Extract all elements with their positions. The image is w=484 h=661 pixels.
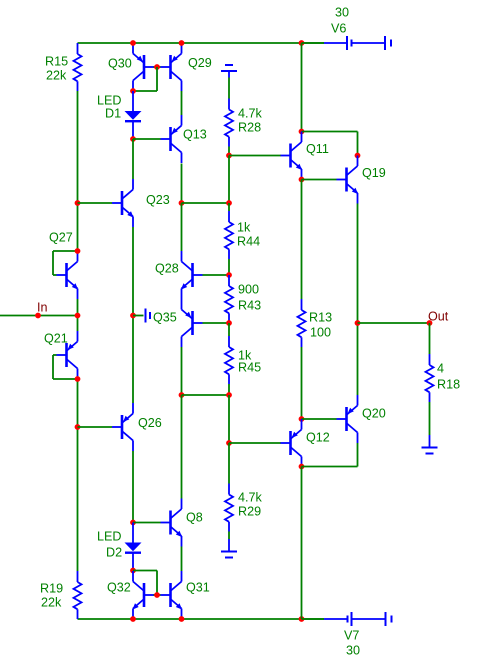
node Q32-Q31 base node	[154, 592, 160, 598]
svg-text:V6: V6	[331, 21, 346, 35]
wire R18 top wire	[429, 323, 431, 354]
svg-text:Q11: Q11	[306, 142, 329, 156]
svg-text:Q13: Q13	[183, 127, 207, 141]
resistor R43	[225, 275, 233, 323]
node Q30-Q29 base node	[154, 64, 160, 70]
wire mirror L horiz	[133, 90, 157, 92]
transistor Q11	[281, 132, 303, 180]
wire Q8E-Q31 wire	[181, 547, 183, 572]
resistor R19	[74, 571, 82, 619]
svg-text:22k: 22k	[46, 68, 67, 82]
node Q21 collector node	[75, 376, 81, 382]
node Q19C node	[355, 153, 361, 159]
wire branch y131	[302, 131, 358, 133]
wire R13-Q12C	[301, 347, 303, 419]
ground output gnd	[429, 435, 431, 448]
wire mid wire y203	[182, 202, 230, 204]
node D2 cathode node	[130, 568, 136, 574]
wire Q27 loop top	[53, 250, 78, 252]
node Q26 base node	[75, 424, 81, 430]
transistor Q21	[57, 331, 78, 379]
wire Q13 base wire	[133, 138, 161, 140]
transistor Q27	[57, 251, 79, 299]
wire R44 bottom stub	[228, 259, 230, 275]
wire Q21 loop to base	[53, 354, 57, 356]
resistor R18	[426, 354, 434, 402]
svg-text:D1: D1	[105, 106, 121, 120]
wire left rail mid	[77, 299, 79, 331]
wire Q8 base wire	[133, 522, 161, 524]
wire mirror2 L vert	[156, 571, 158, 596]
battery V7	[324, 618, 347, 620]
node input terminal	[35, 313, 41, 319]
svg-text:Q23: Q23	[146, 193, 170, 207]
wire wire y395	[182, 394, 230, 396]
wire Q26 base wire	[78, 426, 113, 428]
node D1 cathode node	[130, 136, 136, 142]
node bottom rail node B	[179, 616, 185, 622]
wire left rail upper	[77, 91, 79, 251]
svg-text:30: 30	[335, 5, 349, 19]
node Q12E node	[299, 464, 305, 470]
wire Q13C wire	[181, 164, 183, 204]
svg-text:R45: R45	[238, 360, 261, 374]
wire Q26 collector wire	[132, 451, 134, 523]
wire Q27 loop left	[52, 251, 54, 275]
wire Q12 base wire	[229, 442, 281, 444]
battery I-sense	[145, 309, 147, 323]
wire right rail top	[301, 43, 303, 132]
svg-text:Q27: Q27	[49, 230, 73, 244]
svg-text:900: 900	[238, 282, 259, 296]
transistor Q20	[337, 395, 358, 443]
wire out wire	[358, 322, 430, 324]
wire Q23-Q26 emitter wire	[132, 227, 134, 403]
wire bottom rail	[78, 618, 325, 620]
node Q12C node	[299, 416, 305, 422]
wire tap stub	[133, 315, 144, 317]
wire R28node-y203	[228, 156, 230, 204]
transistor Q28	[181, 251, 203, 299]
svg-text:R29: R29	[238, 504, 261, 518]
node Q35E node	[179, 392, 185, 398]
wire Q23 base wire	[78, 202, 113, 204]
transistor Q35	[182, 299, 203, 347]
wire base link Q30-Q29	[154, 66, 161, 68]
resistor R15	[74, 43, 82, 91]
wire V7 stub	[302, 618, 325, 620]
node Out node	[427, 320, 433, 326]
wire Q11E-R13	[301, 180, 303, 300]
node R28 bottom node	[226, 153, 232, 159]
wire R44 top stub	[228, 203, 230, 211]
node R45 bottom node	[226, 392, 232, 398]
node R44 top node	[226, 200, 232, 206]
node R29 top node	[226, 440, 232, 446]
node rail node B	[179, 40, 185, 46]
svg-text:R18: R18	[437, 377, 460, 391]
svg-text:Q20: Q20	[362, 406, 386, 420]
resistor R29	[225, 484, 233, 532]
transistor Q23	[112, 179, 134, 227]
svg-text:100: 100	[310, 325, 331, 339]
wire top rail	[78, 42, 325, 44]
resistor R44	[225, 211, 233, 259]
wire gnd-R28	[228, 78, 230, 99]
wire mirror2 L horiz	[133, 570, 157, 572]
wire Q28 base wire	[203, 274, 230, 276]
wire Q19C stub	[357, 132, 359, 156]
node rail node C	[299, 40, 305, 46]
LED D2	[125, 523, 142, 571]
svg-text:4.7k: 4.7k	[238, 490, 263, 504]
svg-text:Q28: Q28	[155, 261, 179, 275]
wire base link Q32-Q31	[154, 594, 161, 596]
node D1 anode node	[130, 88, 136, 94]
wire input	[0, 315, 78, 317]
node bottom rail node A	[130, 616, 136, 622]
wire Q35 emitter wire	[181, 347, 183, 395]
wire y395-y443	[228, 395, 230, 443]
svg-text:Q32: Q32	[107, 580, 131, 594]
svg-text:Q19: Q19	[362, 166, 386, 180]
svg-text:LED: LED	[97, 529, 122, 543]
svg-text:Q8: Q8	[186, 510, 203, 524]
wire left rail lower	[77, 379, 79, 571]
wire Q27 loop to base	[53, 274, 57, 276]
resistor R28	[225, 99, 233, 147]
resistor R13	[298, 299, 306, 347]
node bottom rail node C	[299, 616, 305, 622]
wire R29 top stub	[228, 443, 230, 484]
battery V6	[324, 42, 346, 44]
transistor Q12	[281, 419, 302, 467]
node Q23 base node	[75, 200, 81, 206]
wire Q11 base wire	[229, 155, 281, 157]
svg-text:Q31: Q31	[186, 580, 210, 594]
wire V6 stub	[302, 42, 325, 44]
svg-text:Q21: Q21	[44, 331, 68, 345]
wire Q20C across	[302, 466, 358, 468]
svg-text:Q26: Q26	[138, 416, 162, 430]
svg-text:V7: V7	[344, 628, 359, 642]
wire Q19E-out rail	[357, 204, 359, 396]
wire Q23 collector wire	[132, 139, 134, 179]
transistor Q19	[337, 156, 359, 204]
node R44-R43 node	[226, 272, 232, 278]
svg-text:R13: R13	[309, 310, 332, 324]
wire Q29C-Q13 wire	[181, 91, 183, 115]
node out rail node	[355, 320, 361, 326]
ground bottom R29 gnd	[228, 539, 230, 552]
svg-text:Q29: Q29	[188, 56, 212, 70]
svg-text:1k: 1k	[237, 220, 251, 234]
transistor Q29	[161, 43, 182, 91]
svg-text:R43: R43	[238, 298, 261, 312]
node VAS node	[179, 200, 185, 206]
wire Q20 base wire	[302, 418, 337, 420]
transistor Q26	[112, 403, 133, 451]
resistor R45	[225, 336, 233, 384]
wire mirror L vert	[156, 67, 158, 91]
node Q11C branch node	[299, 129, 305, 135]
node vbe tap node	[130, 313, 136, 319]
svg-text:Q12: Q12	[306, 430, 330, 444]
wire Q12E down	[301, 467, 303, 620]
svg-text:4: 4	[437, 361, 444, 375]
svg-text:Q35: Q35	[153, 310, 177, 324]
ground top supply	[228, 71, 230, 78]
wire R28-node	[228, 147, 230, 156]
wire Q8 collector wire	[181, 395, 183, 499]
wire Q20C down	[357, 443, 359, 467]
wire R29 bottom stub	[228, 532, 230, 540]
node Q8 base node	[130, 520, 136, 526]
wire R45 bottom stub	[228, 384, 230, 395]
transistor Q30	[133, 43, 154, 91]
node input on rail	[75, 313, 81, 319]
wire Q28 collector wire	[181, 203, 183, 251]
svg-text:Q30: Q30	[108, 56, 132, 70]
svg-text:30: 30	[346, 643, 360, 657]
svg-text:22k: 22k	[41, 595, 62, 609]
transistor Q31	[161, 571, 183, 619]
svg-text:4.7k: 4.7k	[238, 106, 263, 120]
svg-text:R28: R28	[238, 120, 261, 134]
node R43-R45 node	[226, 320, 232, 326]
transistor Q8	[161, 499, 183, 547]
transistor Q13	[161, 115, 182, 163]
node Q27 collector node	[75, 248, 81, 254]
svg-text:R19: R19	[40, 581, 63, 595]
svg-text:R15: R15	[45, 54, 68, 68]
node rail node A	[130, 40, 136, 46]
wire Q21 loop left	[52, 355, 54, 379]
LED D1	[125, 91, 142, 139]
svg-text:R44: R44	[237, 234, 260, 248]
node Q11E node	[299, 177, 305, 183]
wire R18 bottom wire	[429, 402, 431, 435]
wire Q35 base wire	[203, 322, 230, 324]
svg-text:LED: LED	[97, 93, 122, 107]
svg-text:In: In	[37, 300, 48, 314]
svg-text:D2: D2	[106, 545, 122, 559]
wire Q21 loop bottom	[53, 378, 78, 380]
transistor Q32	[132, 571, 154, 619]
wire R45 top stub	[228, 323, 230, 336]
wire Q19 base wire	[302, 179, 337, 181]
